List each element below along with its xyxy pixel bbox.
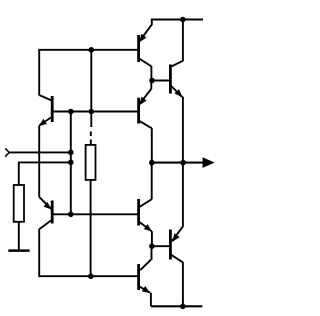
junction dot at (90.8,276.2) [88,273,94,279]
junction dot at (70.8,111.5) [68,109,74,115]
ground [8,249,29,252]
node: output wire [152,162,203,164]
wire: node to resistor R2 (corner at 18.8,162.4) [19,162,71,185]
transistor Q2 (NPN) [152,20,183,163]
wire: base line Q6 to Q3 [53,111,137,113]
junction dot at (91.3,49.8) [89,47,95,53]
wire: dashed break above resistor R1 [90,132,92,145]
junction dot: node A (Q1 collector / Q3 emitter / Q2 base) [149,78,155,84]
junction dot: top rail / Q2 collector [180,17,186,23]
transistor Q8 (NPN) [139,246,152,306]
transistor Q4 (NPN) [139,163,153,247]
wire: vertical x=91.3 down from top wire [90,50,92,127]
transistor Q5 (PNP) [152,163,183,307]
transistor Q1 (PNP) [139,20,152,81]
wire: Q6 collector up to Q1 base (corner at 39.2,49.8) [39,50,137,95]
junction dot: bottom rail / Q5 collector [180,304,186,310]
junction dot at (151.8,162.6) [149,160,155,166]
junction dot: node B (Q4 emitter / Q8 collector / Q5 base) [149,243,155,249]
wire: input to bus [9,151,71,153]
junction dot at (70.8,214.3) [68,212,74,218]
junction dot at (183.1,162.6) [180,160,186,166]
wire: Q7 collector down and right to Q8 base (corner at 39.2,276.2) [39,229,137,276]
power rail bottom (V-) [151,305,202,307]
wire: emitter link Q6-Q7 (x=39.2) [38,126,40,198]
wire: base line Q7 to Q4 [53,213,138,215]
output arrow [203,157,215,168]
transistor Q7 (PNP, mirrored left) [39,197,52,229]
wire: vertical x=70.8 (input bus) [70,112,72,215]
transistor Q6 (NPN, mirrored left) [39,95,53,126]
junction dot at (70.8,152.4) [68,150,74,156]
resistor R1 (middle) [86,145,96,276]
resistor R2 [14,185,24,249]
power rail top (V+) [151,18,203,20]
junction dot at (70.8,162.4) [68,160,74,166]
junction dot at (91.3,111.5) [89,109,95,115]
transistor Q3 (PNP) [139,81,152,163]
input terminal symbol [5,148,9,156]
